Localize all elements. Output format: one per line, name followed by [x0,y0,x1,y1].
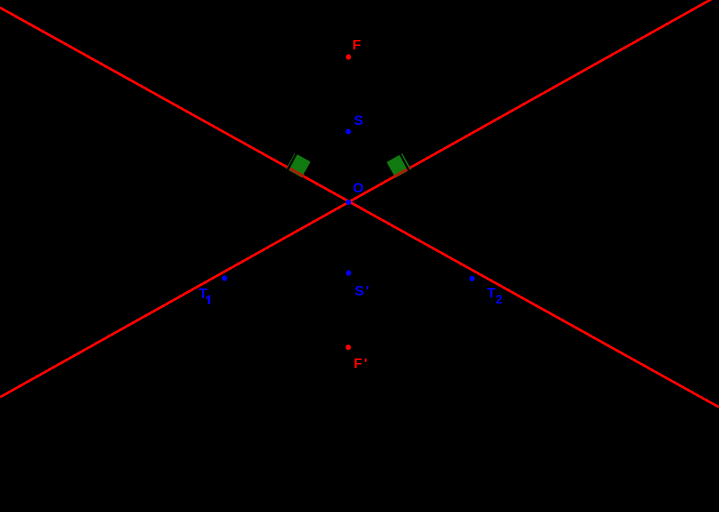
segment F-H1 (black, visible over marker) [287,57,349,172]
svg-text:O: O [353,179,364,195]
line T1 (red, descending through O) [0,8,719,408]
point F [346,54,351,59]
point on line T1 [222,276,227,281]
line T1 darker section across left marker [286,166,304,176]
line T2 darker section across right marker [394,167,412,177]
line T2 (red, ascending through O) [0,0,719,397]
svg-text:T2: T2 [487,284,503,306]
right-angle marker square at H1 (foot of perpendicular from F to line T1) [286,153,310,177]
point S [346,129,351,134]
svg-text:F': F' [354,355,368,371]
right-angle marker square at H2 (foot of perpendicular from F to line T2) [387,153,411,177]
point on line T2 [469,276,474,281]
label T1 subscript 1 [206,295,209,304]
svg-text:S: S [354,112,363,128]
svg-text:S': S' [355,283,369,299]
segment F-H2 (black, visible over marker) [349,57,410,171]
svg-text:F: F [352,36,361,52]
point O [346,200,351,205]
point F' [346,345,351,350]
point S' [346,270,351,275]
